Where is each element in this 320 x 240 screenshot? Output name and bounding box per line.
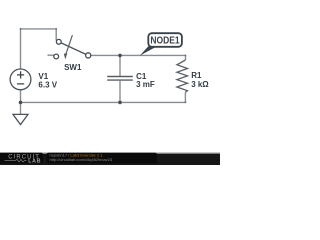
svg-text:6.3 V: 6.3 V <box>38 81 57 90</box>
svg-text:R1: R1 <box>191 71 202 80</box>
svg-text:http://circuitlab.com/c5q462fx: http://circuitlab.com/c5q462fxnav23 <box>50 157 113 162</box>
svg-text:LAB: LAB <box>28 159 41 165</box>
svg-text:NODE1: NODE1 <box>150 35 179 46</box>
svg-text:3 kΩ: 3 kΩ <box>191 80 209 89</box>
svg-text:3 mF: 3 mF <box>136 80 155 89</box>
svg-text:SW1: SW1 <box>64 63 82 72</box>
